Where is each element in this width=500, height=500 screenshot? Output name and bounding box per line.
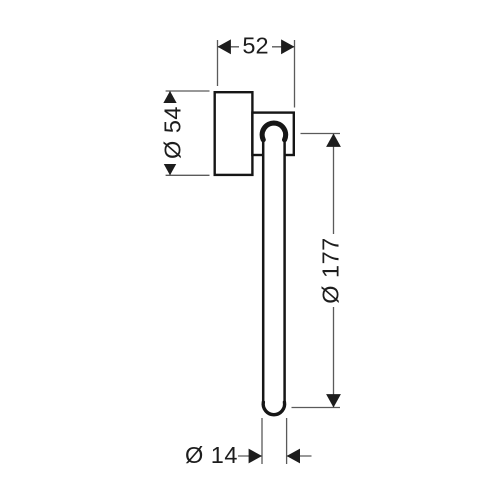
dimension D14 tail right [287, 455, 312, 457]
dimension D177 arrow up [326, 134, 341, 147]
dimension D177 line [333, 134, 335, 408]
dimension D177 arrow down [326, 394, 341, 407]
dimension D14 arrow pointing left [287, 449, 300, 464]
dimension 52 extension line right [294, 40, 296, 108]
dimension D177 extension line top [301, 133, 341, 135]
dimension label D54 [160, 103, 186, 164]
towel ring (stadium outline, edge view) [262, 123, 286, 415]
dimension label D177 [317, 234, 343, 307]
wall plate (large rectangle, side view) [215, 92, 253, 175]
dimension 52 extension line left [217, 40, 219, 86]
dimension label D14 [185, 442, 238, 468]
dimension D54 extension line bottom [166, 174, 210, 176]
svg-text:Ø 177: Ø 177 [317, 237, 343, 304]
dimension D54 arrow up [163, 91, 178, 104]
dimension 52 arrow left [218, 39, 231, 54]
dimension D14 extension line left [261, 418, 263, 464]
dimension label 52 [239, 33, 272, 59]
dimension D14 tail left [238, 455, 262, 457]
dimension D14 extension line right [286, 418, 288, 464]
svg-text:Ø 14: Ø 14 [185, 442, 238, 468]
dimension D14 arrow pointing right [249, 449, 262, 464]
dimension D177 extension line bottom [292, 407, 341, 409]
dimension 52 line [218, 46, 295, 48]
dimension D54 line [169, 91, 171, 175]
dimension D54 extension line top [166, 90, 210, 92]
dimension D54 arrow down [163, 162, 178, 175]
svg-text:Ø 54: Ø 54 [160, 106, 186, 159]
svg-text:52: 52 [242, 33, 268, 59]
mount block (small rectangle, side view) [252, 113, 293, 155]
dimension 52 arrow right [281, 39, 294, 54]
